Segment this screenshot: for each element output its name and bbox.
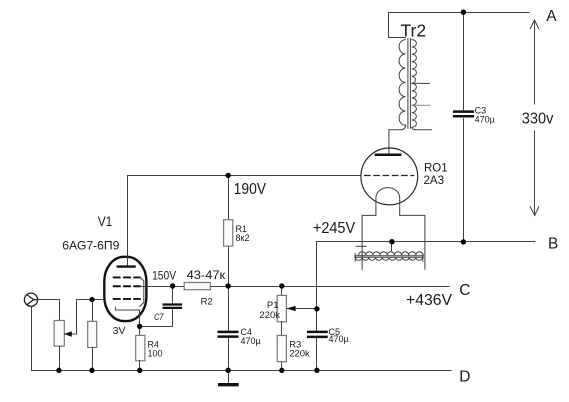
input jack lead down	[31, 306, 33, 370]
tube RO1 anode bar	[376, 153, 400, 156]
resistor R4 lead top	[139, 327, 141, 336]
tube V1 cathode lead	[139, 310, 141, 326]
capacitor C7 lead bottom	[140, 309, 173, 327]
transformer Tr2 primary winding	[399, 40, 406, 126]
svg-text:RO1: RO1	[424, 162, 448, 174]
wire secondary tap 2	[412, 104, 430, 106]
svg-text:470µ: 470µ	[475, 114, 495, 124]
wire secondary tap 1	[412, 82, 430, 84]
svg-text:3V: 3V	[113, 326, 126, 337]
capacitor C3 wire bottom	[463, 119, 465, 242]
node D rail	[32, 370, 451, 372]
filament winding lower scallops	[355, 257, 422, 260]
wire grid line V1	[77, 299, 105, 301]
svg-text:2A3: 2A3	[424, 175, 444, 187]
capacitor C3 plates	[454, 110, 473, 113]
wire B to wiper / C5 upper	[316, 242, 318, 331]
tube V1 g3-cathode tie	[140, 277, 144, 306]
ground bar	[220, 383, 237, 386]
capacitor C4 plates	[219, 331, 238, 334]
filament winding left end bar	[354, 254, 356, 262]
node 190V rail / RO1 grid wire	[128, 175, 362, 177]
resistor R3 body	[277, 336, 286, 362]
svg-text:150V: 150V	[152, 269, 176, 283]
330v measure arrow shaft	[534, 20, 536, 104]
node C line +436V	[173, 286, 450, 288]
svg-text:8к2: 8к2	[236, 233, 250, 243]
resistor R2 body	[184, 283, 210, 290]
tube V1 grid 2 dashes	[114, 285, 140, 287]
resistor R4 lead bottom	[139, 361, 141, 371]
svg-text:R2: R2	[201, 297, 213, 308]
resistor R1 body	[224, 220, 233, 246]
potentiometer P1 wiper	[287, 308, 317, 310]
capacitor C4 lead top	[228, 287, 230, 331]
capacitor C3 wire top	[463, 13, 465, 111]
filament winding upper scallops	[359, 252, 423, 255]
wire C5 lower	[316, 338, 318, 370]
filament winding center tap	[391, 242, 393, 251]
transformer Tr2 secondary winding	[412, 40, 417, 128]
tube V1 anode bar	[118, 265, 135, 267]
svg-text:Tr2: Tr2	[401, 21, 427, 41]
svg-text:V1: V1	[98, 214, 113, 229]
svg-text:B: B	[548, 235, 558, 252]
filament box left	[362, 215, 376, 269]
filament box right	[400, 215, 425, 269]
wire V1 g2 to 150V node	[140, 286, 173, 288]
svg-text:470µ: 470µ	[329, 334, 349, 344]
filament winding left terminal bar	[356, 245, 366, 247]
tube V1 anode lead	[127, 176, 129, 266]
tube V1 envelope	[104, 257, 146, 321]
wire Tr2 top link	[389, 13, 406, 38]
filament winding right end bar	[422, 254, 424, 262]
grid resistor lead bottom	[92, 348, 94, 371]
tube RO1 grid dashes	[365, 175, 414, 177]
svg-text:330v: 330v	[522, 111, 554, 128]
grid resistor body	[88, 321, 97, 347]
capacitor C4 lead bottom	[228, 338, 230, 371]
potentiometer P1 lead top	[281, 287, 283, 296]
potentiometer P1 body	[277, 295, 286, 321]
ground stem	[228, 371, 230, 384]
capacitor C5 plates	[308, 331, 326, 334]
resistor R3 lead bottom	[281, 362, 283, 371]
resistor R4 body	[136, 335, 145, 360]
grid resistor lead top	[92, 300, 94, 322]
tube RO1 filament dome	[376, 188, 400, 216]
transformer Tr2 core	[407, 39, 409, 129]
input jack	[24, 293, 37, 306]
svg-text:470µ: 470µ	[241, 336, 261, 346]
wire Tr2 primary bottom to RO1 anode	[389, 125, 406, 153]
tube V1 grid 3 dashes	[114, 276, 140, 278]
tube RO1 envelope	[361, 148, 418, 205]
svg-text:100: 100	[148, 349, 163, 359]
svg-text:C: C	[459, 282, 470, 299]
capacitor C7 plates	[164, 303, 181, 305]
svg-text:220k: 220k	[289, 349, 310, 360]
tube V1 grid 1 dashes	[114, 298, 140, 300]
svg-text:+436V: +436V	[406, 292, 452, 309]
volume pot lead bottom	[59, 346, 61, 370]
filament winding core lines	[355, 255, 424, 257]
svg-text:220k: 220k	[259, 310, 280, 321]
svg-text:A: A	[546, 8, 557, 25]
wire jack to volume pot	[38, 300, 60, 321]
svg-text:+245V: +245V	[313, 220, 355, 237]
330v arrowhead down	[530, 207, 539, 216]
svg-text:190V: 190V	[234, 181, 267, 198]
volume pot wiper	[65, 333, 77, 335]
tube V1 cathode	[115, 307, 139, 310]
resistor R3 lead top	[281, 322, 283, 336]
330v arrowhead up	[530, 20, 539, 29]
wire secondary bottom tap	[412, 127, 432, 129]
node A rail	[389, 12, 530, 14]
resistor R1 lead bottom	[228, 246, 230, 286]
wire wiper riser to grid	[76, 300, 78, 335]
volume pot body	[54, 321, 64, 347]
resistor R1 lead top	[228, 176, 230, 220]
svg-text:6AG7-6П9: 6AG7-6П9	[62, 239, 119, 253]
svg-text:D: D	[459, 369, 470, 386]
svg-text:43-47к: 43-47к	[187, 268, 227, 282]
capacitor C7 lead top	[172, 287, 174, 304]
svg-text:C7: C7	[154, 312, 164, 322]
node B rail	[317, 241, 535, 243]
